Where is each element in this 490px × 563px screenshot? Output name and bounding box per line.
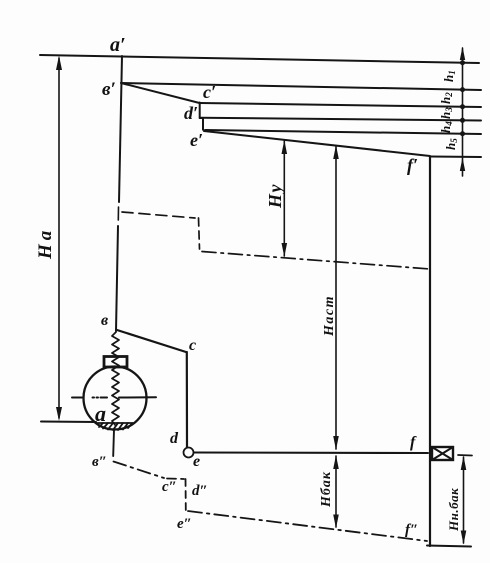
wire: H_a dimension line bbox=[58, 58, 60, 418]
wire: dash-dot e''-f'' bbox=[188, 511, 427, 541]
wire: dashed step down bbox=[199, 218, 200, 249]
svg-text:e′: e′ bbox=[190, 130, 203, 150]
arrowhead Hn.bak bottom bbox=[461, 531, 467, 545]
line b' level bbox=[121, 83, 481, 90]
node a level line bbox=[41, 421, 96, 424]
svg-text:h4: h4 bbox=[438, 121, 454, 133]
line c' level bbox=[200, 103, 481, 107]
wire: step d'-e' bbox=[200, 118, 203, 130]
svg-text:d: d bbox=[170, 430, 179, 447]
arrowhead Hbak top bbox=[333, 455, 339, 469]
wire: suction pipe dash bbox=[117, 207, 119, 220]
svg-text:h5: h5 bbox=[443, 138, 459, 150]
line f' level bbox=[430, 156, 481, 159]
arrowhead Hn.bak top bbox=[461, 456, 467, 470]
wire: step c'-d' bbox=[199, 103, 201, 119]
wire: Hact dimension line bbox=[335, 146, 337, 449]
valve cross bbox=[432, 447, 453, 460]
wire: Hbak dimension line bbox=[335, 456, 337, 527]
svg-text:Ну: Ну bbox=[265, 183, 285, 209]
wire: dashed step down to e'' bbox=[185, 479, 187, 510]
arrowhead h bottom bbox=[460, 158, 465, 172]
svg-text:в′: в′ bbox=[102, 79, 116, 100]
svg-text:d″: d″ bbox=[192, 483, 208, 499]
wire: dash-dot level line to pipe f bbox=[202, 252, 430, 270]
node e circle bbox=[184, 448, 194, 458]
wire: pipe e-f bbox=[194, 451, 428, 454]
arrowhead Hact top bbox=[333, 145, 339, 159]
svg-text:a: a bbox=[95, 401, 106, 426]
junction dots on h dimension bbox=[460, 60, 465, 136]
svg-text:e″: e″ bbox=[177, 516, 192, 532]
svg-text:Нaст: Нaст bbox=[322, 295, 337, 337]
wire: dashed level line from pipe bbox=[122, 212, 195, 218]
valve box bbox=[432, 447, 453, 460]
spring zigzag bbox=[112, 332, 119, 426]
wire: Hy dimension line bbox=[283, 141, 285, 256]
svg-text:d′: d′ bbox=[184, 103, 198, 123]
svg-text:e: e bbox=[193, 453, 200, 470]
arrowhead Hy bottom bbox=[282, 243, 288, 257]
wire: grade line b'-c' bbox=[121, 83, 200, 103]
pump center line bbox=[72, 397, 82, 399]
svg-text:Нн.бaк: Нн.бaк bbox=[446, 488, 461, 532]
line f'' level bbox=[427, 546, 471, 547]
wire: Hn.bak dimension line bbox=[463, 457, 465, 543]
line a' (upper reservoir level) bbox=[40, 55, 479, 63]
wire: dash c''-step bbox=[167, 478, 184, 481]
arrowhead Hy top bbox=[282, 140, 288, 154]
wire: grade line e'-f' bbox=[204, 131, 430, 156]
svg-text:в″: в″ bbox=[92, 454, 107, 470]
wire: pipe below pump bbox=[112, 430, 115, 457]
svg-text:c″: c″ bbox=[162, 479, 177, 495]
arrowhead h top bbox=[460, 47, 465, 61]
svg-text:a′: a′ bbox=[110, 34, 126, 56]
svg-text:f: f bbox=[410, 434, 417, 451]
svg-text:h2: h2 bbox=[438, 92, 454, 104]
pump circle bbox=[84, 367, 147, 430]
wire: dash-dot b''-c'' bbox=[114, 462, 165, 479]
svg-text:h3: h3 bbox=[438, 107, 454, 119]
svg-text:c: c bbox=[189, 337, 196, 354]
svg-text:f″: f″ bbox=[405, 522, 418, 538]
arrowhead Hact bottom bbox=[333, 436, 339, 450]
line d' level bbox=[201, 118, 481, 121]
svg-text:в: в bbox=[101, 312, 108, 329]
svg-text:c′: c′ bbox=[203, 82, 216, 102]
wire: suction pipe a'-b upper bbox=[119, 56, 122, 202]
wire: discharge pipe f'-f-f'' bbox=[429, 157, 431, 546]
svg-text:h1: h1 bbox=[441, 70, 457, 82]
svg-text:Нa: Нa bbox=[35, 227, 56, 260]
wire: pipe b-c bbox=[117, 330, 186, 352]
svg-text:f′: f′ bbox=[407, 155, 418, 175]
line e' level bbox=[205, 130, 481, 134]
wire: suction pipe lower bbox=[116, 226, 118, 331]
pump bottom chord + hatch bbox=[97, 422, 133, 424]
arrowhead Ha bottom bbox=[56, 407, 62, 421]
pump seal rectangle bbox=[104, 357, 127, 368]
svg-text:Нбaк: Нбaк bbox=[319, 471, 334, 508]
arrowhead Hbak bottom bbox=[333, 515, 339, 529]
wire: Hn.bak reference tick bbox=[458, 454, 472, 457]
wire: h-loss dimension line bbox=[462, 48, 464, 176]
arrowhead Ha top bbox=[56, 56, 62, 71]
wire: pipe c-d bbox=[186, 352, 188, 447]
